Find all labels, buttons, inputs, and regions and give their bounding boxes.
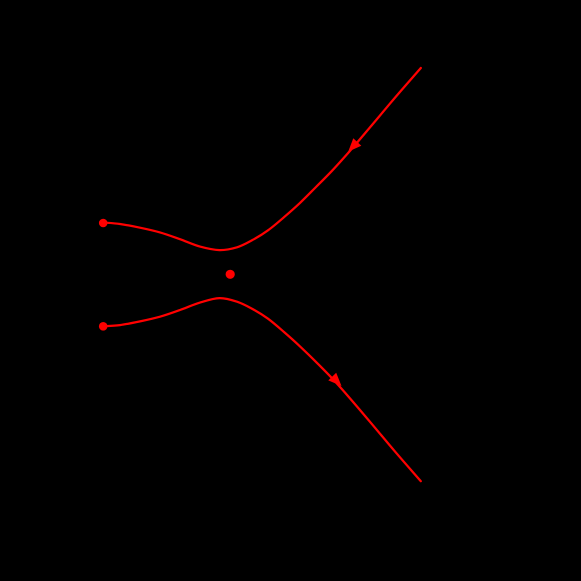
node B: lower-left point marker bbox=[99, 322, 108, 331]
trajectory curve 2 (lower: from left marker, humps near saddle, falls to lower right) bbox=[103, 298, 421, 481]
node C: central saddle point marker bbox=[226, 270, 235, 279]
trajectory curve 1 (upper: from left marker, dips near saddle, rises to upper right) bbox=[103, 68, 421, 250]
arrowhead on curve 2 pointing down-right bbox=[328, 373, 341, 386]
arrowhead on curve 1 pointing down-left bbox=[348, 138, 361, 151]
node A: upper-left point marker bbox=[99, 219, 108, 228]
